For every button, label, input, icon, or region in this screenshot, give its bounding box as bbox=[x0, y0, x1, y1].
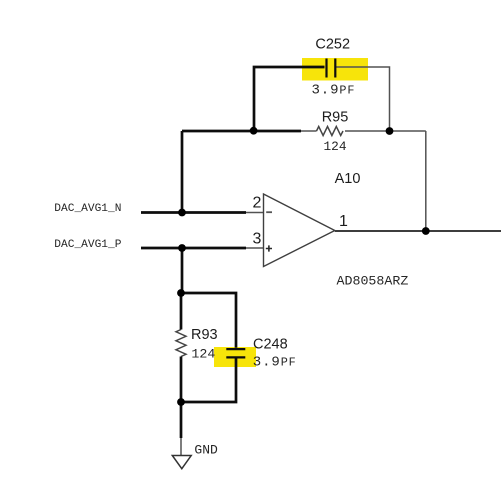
svg-text:GND: GND bbox=[194, 442, 218, 457]
svg-text:124: 124 bbox=[323, 139, 346, 154]
svg-text:AD8058ARZ: AD8058ARZ bbox=[337, 274, 409, 289]
svg-text:124: 124 bbox=[191, 347, 215, 362]
svg-text:3.9PF: 3.9PF bbox=[253, 355, 297, 371]
svg-text:3.9PF: 3.9PF bbox=[312, 82, 356, 98]
svg-text:R93: R93 bbox=[191, 327, 218, 343]
svg-text:DAC_AVG1_P: DAC_AVG1_P bbox=[54, 239, 121, 251]
svg-text:C248: C248 bbox=[253, 337, 288, 353]
svg-text:R95: R95 bbox=[322, 109, 349, 125]
svg-text:A10: A10 bbox=[335, 171, 361, 187]
svg-text:1: 1 bbox=[339, 213, 348, 230]
svg-text:DAC_AVG1_N: DAC_AVG1_N bbox=[54, 203, 121, 215]
svg-text:C252: C252 bbox=[315, 37, 350, 53]
svg-text:2: 2 bbox=[253, 195, 262, 212]
svg-text:3: 3 bbox=[253, 231, 262, 248]
